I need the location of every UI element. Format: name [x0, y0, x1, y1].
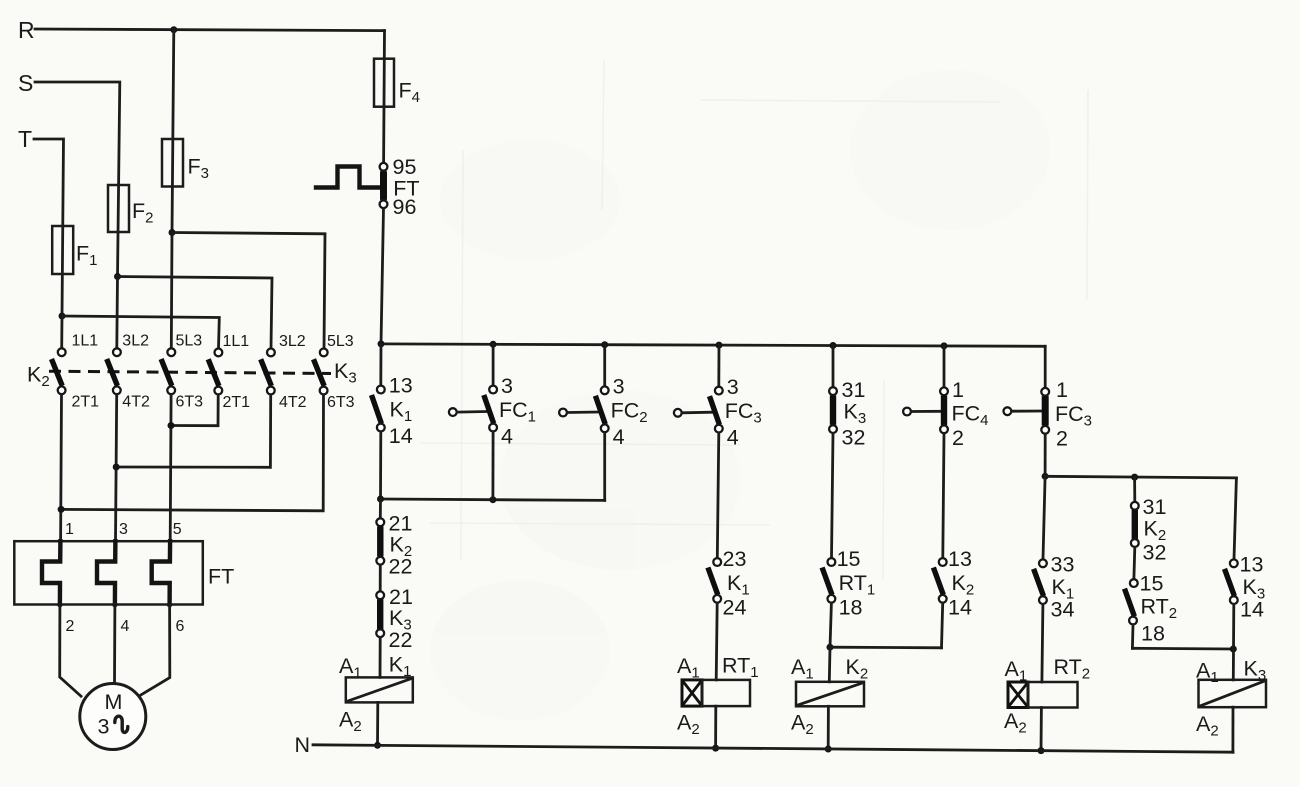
- contact K2 21-22 NC: [376, 512, 412, 579]
- junction N RT2: [1038, 747, 1045, 754]
- junction bus col1: [378, 340, 385, 347]
- wire R down to F3: [172, 30, 174, 233]
- svg-text:32: 32: [1143, 541, 1167, 565]
- svg-text:15: 15: [837, 547, 861, 571]
- svg-text:T: T: [18, 126, 32, 152]
- wire F3 down to K2 5L3: [170, 233, 173, 348]
- svg-text:RT2: RT2: [1054, 655, 1091, 683]
- wire F2 branch to K3 3L2: [118, 277, 273, 349]
- svg-text:14: 14: [1240, 598, 1264, 622]
- svg-text:95: 95: [393, 155, 417, 179]
- junction F3 output: [169, 229, 176, 236]
- wire coil K2 to N: [827, 706, 830, 749]
- wire FT 6 to motor: [140, 605, 170, 696]
- svg-text:FC3: FC3: [1055, 402, 1092, 430]
- junction bus FC1: [490, 341, 497, 348]
- svg-text:K2: K2: [27, 363, 50, 391]
- wire F2 down to K2 3L2: [115, 277, 118, 348]
- svg-text:F2: F2: [132, 199, 153, 227]
- timer coil RT1: [677, 654, 759, 739]
- wire K1 14 down to node: [379, 432, 382, 499]
- wire K2 2T1 down to FT terminal 1: [59, 395, 63, 541]
- wire R phase horizontal: [35, 29, 385, 31]
- wire K3 4T2 to K2 4T2 column: [116, 395, 271, 468]
- wire FC3 4 down to K1 23: [717, 433, 719, 558]
- wire K3 32 down to RT1 15: [832, 433, 834, 557]
- junction K2 coil node: [827, 644, 834, 651]
- wire FC1 4 down to node: [491, 432, 494, 500]
- wire FT 2 to motor: [60, 605, 81, 697]
- svg-text:32: 32: [842, 426, 866, 450]
- wire K2 32 to RT2 15: [1133, 547, 1137, 579]
- junction F2 output: [114, 273, 121, 280]
- svg-text:3: 3: [119, 521, 128, 538]
- wire K1 24 to coil RT1: [716, 603, 717, 680]
- svg-text:22: 22: [389, 555, 413, 579]
- junction node FC3b: [1042, 473, 1049, 480]
- svg-text:A1: A1: [791, 655, 814, 683]
- wire FT 4 to motor: [113, 605, 116, 685]
- svg-text:A1: A1: [677, 654, 700, 682]
- svg-text:13: 13: [1240, 553, 1264, 577]
- coil K3: [1196, 657, 1266, 740]
- wire RT1 18 to coil K2 node: [830, 603, 831, 647]
- fuse F4: [374, 59, 420, 107]
- contactor K3 power contact 3L2/4T2: [261, 333, 307, 411]
- svg-text:33: 33: [1051, 553, 1075, 577]
- junction N RT1: [712, 745, 719, 752]
- junction N K2: [825, 746, 832, 753]
- fuse F3: [162, 139, 209, 187]
- svg-text:6T3: 6T3: [176, 394, 204, 411]
- wire K3 14 to coil K3: [1232, 604, 1235, 679]
- wire RT2 18 down to node: [1131, 625, 1134, 649]
- svg-text:FC1: FC1: [499, 398, 536, 426]
- junction node K3 column: [1230, 646, 1237, 653]
- fuse F1: [52, 226, 97, 274]
- svg-text:2: 2: [66, 618, 75, 635]
- svg-text:K3: K3: [844, 400, 867, 428]
- wire coil RT1 to N: [714, 706, 717, 748]
- svg-text:RT2: RT2: [1141, 595, 1178, 623]
- svg-text:K2: K2: [952, 571, 975, 599]
- svg-text:4T2: 4T2: [279, 394, 307, 411]
- svg-text:FT: FT: [208, 564, 234, 588]
- svg-text:13: 13: [948, 547, 972, 571]
- junction node FC1: [489, 496, 496, 503]
- FT heater element 2: [97, 541, 115, 604]
- svg-text:F1: F1: [76, 242, 97, 270]
- contact RT1 15-18 NO timed: [822, 547, 875, 620]
- contactor K2 power contact 1L1/2T1: [52, 333, 100, 411]
- svg-text:14: 14: [948, 596, 972, 620]
- wire F3 branch to K3 5L3: [172, 233, 325, 349]
- svg-text:FC4: FC4: [952, 402, 989, 430]
- junction node col1: [377, 496, 384, 503]
- junction node K2 31: [1131, 474, 1138, 481]
- svg-text:3: 3: [98, 715, 110, 739]
- svg-text:3: 3: [727, 375, 739, 399]
- svg-text:R: R: [18, 17, 35, 43]
- wire bus to FC4 1: [943, 346, 946, 387]
- junction on 4T2 column: [113, 464, 120, 471]
- junction N col1: [374, 742, 381, 749]
- contact K1 33-34 NO: [1034, 553, 1075, 622]
- wire bus to FC2 3: [603, 345, 606, 386]
- node line K1/FC1/FC2: [381, 499, 605, 500]
- wire FC2 4 down to node: [603, 433, 606, 501]
- wire bus corner to FC3b 1: [1044, 346, 1047, 387]
- wire FC3b 2 down to node: [1044, 434, 1047, 476]
- wire node down to K2 31: [1133, 477, 1136, 502]
- wire node down to K2 21: [379, 499, 382, 518]
- wire R down through F4: [382, 31, 386, 163]
- svg-text:2: 2: [1056, 427, 1068, 451]
- contactor K3 power contact 1L1/2T1: [208, 333, 250, 411]
- svg-text:A2: A2: [339, 708, 362, 736]
- wire coil K3 to N: [1232, 707, 1235, 752]
- svg-text:2T1: 2T1: [223, 394, 251, 411]
- svg-text:3: 3: [613, 375, 625, 399]
- wire T phase: [34, 139, 64, 316]
- contact K3 31-32 NC: [829, 378, 866, 450]
- contact K1 13-14 NO: [372, 374, 413, 449]
- contactor K2 power contact 5L3/6T3: [161, 333, 203, 411]
- svg-text:K3: K3: [334, 359, 357, 387]
- svg-text:5: 5: [173, 521, 182, 538]
- wire K2 22 to K3 21: [379, 565, 382, 591]
- wire K2 14 down to node: [942, 603, 943, 648]
- svg-text:2T1: 2T1: [72, 394, 100, 411]
- node line RT1/K2contact: [830, 646, 942, 649]
- junction bus FC3: [716, 342, 723, 349]
- wire coil K1 to N: [376, 702, 379, 745]
- wire bus to FC1 3: [492, 344, 495, 385]
- svg-text:F4: F4: [399, 78, 420, 106]
- svg-text:18: 18: [1141, 622, 1165, 646]
- limit switch FC1 3-4 NO: [449, 374, 536, 449]
- svg-text:5L3: 5L3: [327, 333, 354, 350]
- limit switch FC4 1-2 NC: [903, 378, 988, 450]
- svg-text:1L1: 1L1: [223, 333, 250, 350]
- FT heater element 1: [42, 541, 60, 604]
- svg-text:FC3: FC3: [725, 399, 762, 427]
- svg-text:31: 31: [842, 378, 866, 402]
- svg-text:15: 15: [1140, 572, 1164, 596]
- svg-text:S: S: [18, 70, 33, 96]
- svg-text:13: 13: [389, 374, 413, 398]
- svg-text:31: 31: [1143, 495, 1167, 519]
- svg-text:K1: K1: [727, 571, 750, 599]
- thermal overload FT box: [14, 541, 203, 604]
- svg-text:K1: K1: [390, 398, 413, 426]
- limit switch FC3 3-4 NO: [674, 375, 762, 450]
- motor M 3-phase: [80, 684, 146, 750]
- overload contact FT 95-96: [316, 155, 420, 219]
- svg-text:3: 3: [501, 374, 513, 398]
- svg-text:RT1: RT1: [722, 654, 759, 682]
- coil K1: [339, 653, 413, 736]
- svg-text:18: 18: [839, 596, 863, 620]
- svg-text:6: 6: [176, 618, 185, 635]
- svg-text:A2: A2: [677, 711, 700, 739]
- junction on 2T1 column: [58, 506, 65, 513]
- svg-text:A2: A2: [1004, 709, 1027, 737]
- svg-text:3L2: 3L2: [122, 333, 149, 350]
- svg-text:22: 22: [389, 628, 413, 652]
- neutral line N: [313, 745, 1233, 752]
- wire bus to K1 13: [379, 344, 382, 385]
- svg-text:1L1: 1L1: [72, 333, 99, 350]
- svg-text:K2: K2: [846, 655, 869, 683]
- node line FC3b to K3 column: [1045, 476, 1236, 478]
- svg-text:F3: F3: [188, 155, 209, 183]
- wire node down to K3 13: [1234, 478, 1236, 559]
- svg-text:K1: K1: [389, 653, 412, 681]
- contact K3 13-14 NO: [1225, 553, 1266, 622]
- contact RT2 15-18 NO timed: [1125, 572, 1178, 646]
- contact K2 31-32 NC: [1131, 495, 1167, 565]
- contactor K3 power contact 5L3/6T3: [314, 333, 355, 411]
- svg-text:4: 4: [727, 425, 739, 449]
- wire K3 22 to coil K1: [379, 638, 382, 678]
- junction R/F3 branch: [170, 26, 177, 33]
- junction bus K3 31: [830, 342, 837, 349]
- wire K1 34 to coil RT2: [1042, 604, 1043, 682]
- wire K2 6T3 down to FT terminal 5: [169, 395, 173, 541]
- junction bus FC2: [601, 341, 608, 348]
- svg-text:4T2: 4T2: [122, 394, 150, 411]
- wire S phase: [35, 82, 120, 277]
- timer coil RT2: [1004, 655, 1090, 737]
- svg-text:34: 34: [1051, 598, 1075, 622]
- svg-text:M: M: [105, 690, 123, 714]
- paper show-through smudges: [430, 70, 1050, 720]
- svg-text:6T3: 6T3: [327, 394, 355, 411]
- svg-text:14: 14: [389, 424, 413, 448]
- svg-text:A2: A2: [791, 711, 814, 739]
- wire node down to K1 33: [1043, 476, 1045, 559]
- FT heater element 3: [152, 541, 170, 604]
- svg-text:N: N: [295, 733, 311, 757]
- svg-text:RT1: RT1: [839, 571, 876, 599]
- svg-text:5L3: 5L3: [176, 333, 203, 350]
- svg-text:3L2: 3L2: [279, 333, 306, 350]
- junction on 6T3 column: [168, 422, 175, 429]
- svg-text:1: 1: [65, 521, 74, 538]
- fuse F2: [108, 185, 153, 232]
- svg-text:23: 23: [723, 547, 747, 571]
- wire F1 down to K2 1L1: [60, 316, 63, 348]
- svg-text:1: 1: [1056, 378, 1068, 402]
- junction bus FC4: [941, 342, 948, 349]
- svg-text:4: 4: [501, 425, 513, 449]
- mechanical linkage dashed line: [49, 371, 331, 373]
- node line RT2 to K3 column: [1132, 647, 1233, 651]
- coil K2: [791, 655, 868, 738]
- svg-text:A2: A2: [1196, 712, 1219, 740]
- svg-text:2: 2: [952, 426, 964, 450]
- control bus line: [381, 344, 1045, 346]
- contact K2 13-14 NO: [933, 547, 974, 620]
- junction F1 output: [59, 313, 66, 320]
- contact K3 21-22 NC: [376, 585, 413, 652]
- contact K1 23-24 NO: [708, 547, 750, 620]
- svg-text:4: 4: [613, 425, 625, 449]
- svg-text:1: 1: [952, 378, 964, 402]
- wire FT 96 to control bus: [381, 209, 384, 344]
- wire F1 branch to K3 1L1: [62, 316, 219, 348]
- wire bus to K3 31: [832, 346, 835, 387]
- svg-text:4: 4: [121, 618, 130, 635]
- svg-text:A1: A1: [1005, 657, 1028, 685]
- svg-text:24: 24: [723, 596, 747, 620]
- svg-text:96: 96: [393, 195, 417, 219]
- limit switch FC2 3-4 NO: [559, 375, 648, 450]
- wire K3 2T1 to K2 6T3 column: [171, 395, 218, 426]
- limit switch FC3 1-2 NC: [1004, 378, 1093, 451]
- wire coil RT2 to N: [1040, 708, 1043, 751]
- contactor K2 power contact 3L2/4T2: [107, 333, 150, 411]
- wire FC4 2 down to K2 13: [943, 434, 944, 558]
- wire node down to coil K2: [828, 647, 832, 682]
- wire bus to FC3 3: [717, 345, 720, 386]
- wire K3 6T3 to K2 2T1 column: [61, 395, 323, 511]
- wire K2 4T2 down to FT terminal 3: [116, 395, 117, 541]
